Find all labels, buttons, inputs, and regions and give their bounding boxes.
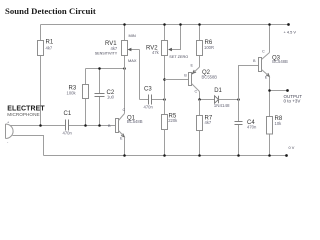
node dot R5 bottom on rail — [163, 154, 166, 157]
wire C2 leads — [99, 69, 101, 126]
transistor Q3 — [259, 58, 262, 72]
svg-text:B: B — [253, 59, 256, 63]
svg-text:E: E — [120, 137, 123, 141]
wire D1 row — [200, 99, 239, 101]
node dot C4 bottom on rail — [237, 154, 240, 157]
svg-text:BC548B: BC548B — [127, 119, 143, 124]
wire mic ground lead — [13, 136, 44, 156]
transistor Q1 — [116, 119, 119, 133]
svg-text:4k7: 4k7 — [205, 120, 212, 125]
svg-text:47k: 47k — [152, 50, 160, 55]
svg-text:10k: 10k — [275, 121, 283, 126]
node dot Q2 collector / R7 / D1 — [198, 98, 201, 101]
node dot Q1 emitter on ground rail — [123, 154, 126, 157]
resistor R5 — [162, 115, 168, 130]
svg-text:470n: 470n — [63, 130, 73, 135]
electret microphone MIC1 — [6, 124, 14, 139]
svg-text:220k: 220k — [168, 118, 178, 123]
svg-text:Sound Detection Circuit: Sound Detection Circuit — [5, 6, 96, 16]
node dot R3 bottom on base wire — [84, 124, 87, 127]
resistor R3 — [83, 85, 89, 99]
terminal output — [286, 89, 289, 92]
svg-text:-: - — [7, 140, 9, 144]
svg-text:MIN: MIN — [129, 33, 136, 38]
node dot RV2 wiper on rail — [179, 23, 182, 26]
wire output — [270, 90, 288, 92]
svg-text:1u0: 1u0 — [107, 95, 115, 100]
svg-text:BC558B: BC558B — [202, 74, 218, 79]
wire mic signal line to Q1 base — [11, 125, 116, 127]
svg-text:MICROPHONE: MICROPHONE — [7, 112, 39, 117]
svg-text:100R: 100R — [204, 45, 214, 50]
terminal 0V — [285, 154, 288, 157]
wiper arrow RV2 — [170, 25, 181, 50]
svg-text:D1: D1 — [214, 88, 222, 94]
wire top supply rail — [41, 24, 289, 26]
svg-text:B: B — [184, 74, 187, 78]
svg-text:470n: 470n — [247, 124, 257, 129]
svg-text:+ 4.5 V: + 4.5 V — [284, 30, 297, 35]
svg-text:C1: C1 — [64, 111, 72, 117]
svg-text:MAX: MAX — [128, 58, 137, 63]
svg-text:0 to +3V: 0 to +3V — [284, 99, 301, 104]
resistor R6 — [199, 25, 201, 68]
svg-text:E: E — [191, 63, 194, 67]
svg-text:C: C — [123, 108, 126, 112]
node dot C2 top — [98, 67, 101, 70]
node dot RV2 top on rail — [163, 23, 166, 26]
node dot mid rail / RV1 lead — [123, 67, 126, 70]
wire Q2 base wire — [165, 79, 189, 81]
wiper arrow RV1 — [130, 49, 140, 51]
wire bottom ground rail — [44, 155, 287, 157]
node dot RV1 top on rail — [123, 23, 126, 26]
node dot RV2/Q2 base tap — [163, 78, 166, 81]
capacitor C4 — [238, 100, 240, 156]
capacitor C3 — [140, 99, 165, 101]
svg-text:0 V: 0 V — [289, 145, 295, 150]
node dot mic/R1 junction — [39, 124, 42, 127]
resistor R8 — [269, 91, 271, 156]
wire Q3 base riser — [239, 66, 259, 100]
capacitor C2 — [95, 94, 105, 97]
svg-text:4k7: 4k7 — [46, 46, 53, 51]
potentiometer RV2 — [164, 25, 166, 115]
terminal +4.5V — [287, 23, 290, 26]
wire mid rail R3/C2 to RV1 — [86, 68, 125, 70]
svg-text:SENSITIVITY: SENSITIVITY — [95, 52, 118, 56]
svg-text:BC548B: BC548B — [272, 59, 288, 64]
node dot Q3 collector on rail — [268, 23, 271, 26]
node dot C2 bottom — [98, 124, 101, 127]
node dot D1 cathode / C4 / Q3 base — [237, 98, 240, 101]
node dot output junction — [268, 89, 271, 92]
resistor R1 — [38, 41, 44, 56]
svg-text:C: C — [195, 90, 198, 94]
node dot R8 bottom on rail — [268, 154, 271, 157]
wire R3 leads — [85, 69, 87, 126]
svg-text:1N4148: 1N4148 — [214, 103, 230, 108]
svg-text:E: E — [265, 76, 268, 80]
resistor R7 — [199, 100, 201, 156]
node dot C3 right / R5 / RV2 — [163, 98, 166, 101]
svg-text:C: C — [262, 50, 265, 54]
node dot R7 bottom on rail — [198, 154, 201, 157]
svg-text:C3: C3 — [144, 87, 152, 93]
svg-text:+: + — [7, 121, 10, 125]
svg-text:100k: 100k — [67, 90, 77, 95]
node dot R6 top on rail — [198, 23, 201, 26]
svg-text:SET ZERO: SET ZERO — [169, 55, 188, 59]
svg-text:4k7: 4k7 — [111, 46, 118, 51]
capacitor C1 — [66, 120, 69, 131]
potentiometer RV1 — [124, 25, 126, 114]
transistor Q2 — [189, 73, 192, 86]
svg-text:470n: 470n — [144, 104, 154, 109]
wire R1 branch vertical — [40, 25, 42, 126]
diode D1 — [215, 96, 219, 103]
